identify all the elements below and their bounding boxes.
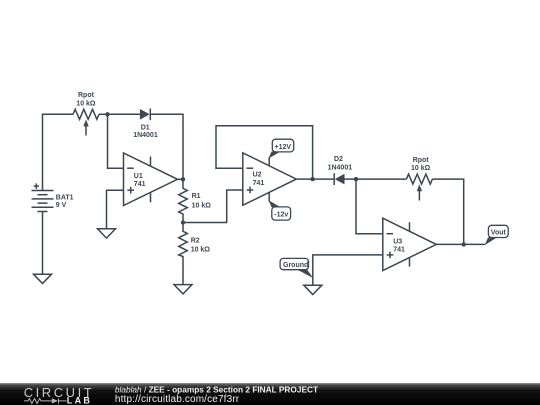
wire U1 non-inverting input to ground	[107, 190, 124, 229]
net label Ground	[280, 258, 313, 278]
label R2 10 kOhm	[191, 238, 211, 254]
svg-text:+12V: +12V	[275, 144, 292, 151]
wire battery plus to Rpot	[43, 114, 74, 190]
label BAT1 9 V	[56, 195, 74, 210]
svg-text:1N4001: 1N4001	[328, 165, 353, 172]
node R1-R2 junction	[181, 220, 185, 224]
op-amp U1	[124, 153, 178, 206]
node U1 output junction	[181, 177, 185, 181]
label R1 10 kOhm	[192, 193, 212, 209]
wire R1-R2 junction to U2 non-inverting input	[183, 190, 243, 223]
wire U3 non-inverting input to ground net	[313, 255, 383, 285]
pin V+ of U2	[268, 157, 270, 166]
node U2 output junction	[310, 177, 314, 181]
ground under R2	[174, 285, 192, 294]
svg-text:10 kΩ: 10 kΩ	[191, 246, 211, 253]
svg-text:U2: U2	[253, 172, 262, 179]
wire node down to U3 inverting input	[356, 179, 383, 234]
wire U2 feedback loop output to inverting input	[216, 126, 313, 179]
op-amp U3	[383, 218, 437, 270]
svg-text:9 V: 9 V	[56, 202, 67, 209]
label Rpot 10 kOhm (left)	[76, 92, 96, 107]
node Vout junction	[462, 242, 466, 246]
svg-text:10 kΩ: 10 kΩ	[192, 202, 212, 209]
svg-text:Rpot: Rpot	[78, 92, 95, 99]
label D2 1N4001	[328, 156, 353, 172]
wire node down to U1 inverting input	[108, 114, 124, 168]
node junction after D2	[354, 177, 358, 181]
label D1 1N4001	[133, 124, 158, 139]
wire node to Rpot right	[356, 178, 406, 180]
svg-text:741: 741	[253, 180, 265, 187]
footer bar	[0, 383, 540, 405]
resistor R2	[179, 223, 188, 285]
net flag Vout	[485, 225, 508, 245]
ground symbol under Ground label	[304, 285, 322, 294]
wire Rpot right to Vout node	[432, 179, 463, 244]
svg-text:741: 741	[134, 181, 146, 188]
svg-text:10 kΩ: 10 kΩ	[76, 100, 96, 107]
svg-text:Vout: Vout	[491, 230, 507, 237]
op-amp U2	[243, 153, 296, 206]
diode D2	[334, 173, 344, 185]
ground under battery	[34, 274, 52, 283]
voltage label +12V	[268, 139, 293, 158]
svg-text:U3: U3	[393, 238, 402, 245]
svg-text:-12v: -12v	[274, 212, 288, 219]
voltage label -12v	[268, 200, 290, 220]
pin V- of U2	[268, 192, 270, 201]
svg-text:blablah / ZEE - opamps 2 Secti: blablah / ZEE - opamps 2 Section 2 FINAL…	[115, 384, 318, 394]
svg-text:LAB: LAB	[67, 395, 92, 405]
wire D1 to U1 output node	[150, 114, 183, 179]
svg-text:10 kΩ: 10 kΩ	[411, 165, 431, 172]
label Rpot 10 kOhm (right)	[411, 157, 431, 172]
ground under U1 plus input	[98, 229, 116, 238]
wire U2 output to D2	[296, 178, 334, 180]
wire U3 output to Vout	[436, 243, 485, 245]
svg-text:741: 741	[393, 247, 405, 254]
svg-text:R1: R1	[192, 193, 201, 200]
potentiometer Rpot (right)	[406, 174, 432, 200]
svg-text:1N4001: 1N4001	[133, 132, 158, 139]
battery BAT1	[32, 183, 54, 211]
svg-text:http://circuitlab.com/ce7f3rr: http://circuitlab.com/ce7f3rr	[115, 394, 240, 405]
svg-text:U1: U1	[134, 173, 143, 180]
svg-text:D1: D1	[141, 124, 150, 131]
node junction after Rpot	[105, 112, 109, 116]
potentiometer Rpot (left)	[73, 109, 99, 135]
svg-text:R2: R2	[191, 238, 200, 245]
diode D1	[140, 108, 150, 120]
wire U1 output to node	[178, 178, 184, 180]
wire battery minus down	[42, 212, 44, 275]
wire Rpot to node	[99, 113, 108, 115]
svg-text:BAT1: BAT1	[56, 195, 74, 202]
svg-text:Rpot: Rpot	[413, 157, 430, 164]
wire D2 to node	[345, 178, 357, 180]
svg-text:Ground: Ground	[283, 262, 308, 269]
wire node to D1	[108, 113, 140, 115]
resistor R1	[179, 179, 188, 222]
svg-text:D2: D2	[334, 156, 343, 163]
